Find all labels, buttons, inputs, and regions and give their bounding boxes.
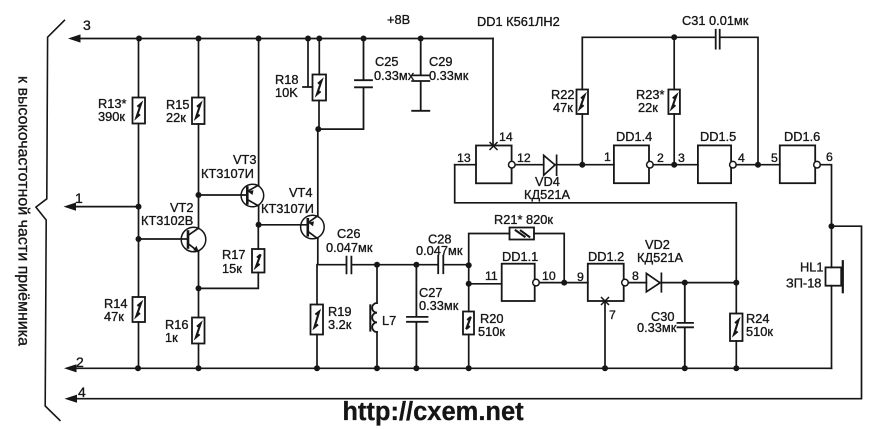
svg-text:0.33мк: 0.33мк [637,320,677,335]
inductor L7 [370,265,377,369]
svg-text:9: 9 [577,270,584,284]
wire: line 3 top rail (+8V) [79,38,493,40]
junction: L7 top node [374,262,380,268]
junction: VT2 emitter / R16 / R17 node [196,285,202,291]
arrow: line 2 [64,364,77,372]
svg-text:3: 3 [678,151,685,165]
svg-text:ЗП-18: ЗП-18 [786,276,821,291]
resistor R18 [313,39,327,130]
svg-text:12: 12 [517,151,531,165]
svg-text:47к: 47к [553,100,573,115]
arrow: line 3 [68,34,81,42]
wire: C26 node to DD1.1 input chain [353,264,469,266]
inverter DD1.5 [698,145,736,183]
wire: DD1.2 pin 7 to ground [604,301,606,368]
junction: C31 bottom node [755,162,761,168]
svg-text:0.33мх: 0.33мх [374,68,415,83]
svg-text:11: 11 [485,269,498,283]
svg-text:С31 0.01мк: С31 0.01мк [682,13,749,28]
junction: C30 top node [682,280,688,286]
inverter DD1.1 [469,264,540,301]
wire: DD1.5 pin 4 to DD1.6 pin 5 [736,164,780,166]
junction: R23 top node [671,34,677,40]
svg-text:0.047мк: 0.047мк [416,243,463,258]
wire: R15/VT2 collector branch [198,39,200,369]
svg-text:L7: L7 [382,313,396,328]
svg-text:DD1.1: DD1.1 [502,249,538,264]
pin 7 mark (x) [602,298,609,305]
svg-text:14: 14 [499,130,513,144]
resistor R22 [577,37,589,164]
capacitor C28 [438,256,443,274]
wire: left column R13/R14 branch [138,39,140,369]
junction: R22 bottom node [579,162,585,168]
svg-text:DD1.2: DD1.2 [588,249,624,264]
wire: VT3 emitter to rail [258,39,260,186]
svg-text:5: 5 [771,151,778,165]
svg-text:VT4: VT4 [289,185,312,200]
capacitor C27 [407,265,428,369]
junction: R16 bottom on ground [196,365,202,371]
wire: line 4 [76,226,862,399]
capacitor C25 [318,39,372,130]
wire: oscillator top line R22/R23/C31 [582,37,758,164]
svg-text:КД521А: КД521А [524,187,570,202]
diode VD4 [544,155,557,175]
svg-text:8: 8 [632,269,639,283]
svg-text:С29: С29 [429,54,452,69]
svg-text:DD1.6: DD1.6 [784,129,820,144]
wire: VT4 base [259,224,308,226]
svg-text:6: 6 [826,150,833,164]
wire: VT4 emitter up to R18/C25 node [317,129,319,216]
junction: VT3 collector / R17 / VT4 base node [256,222,262,228]
svg-text:КТ3107И: КТ3107И [201,166,254,181]
capacitor C31 [716,30,720,49]
transistor VT4 [301,215,325,239]
junction: C25 top on rail [361,36,367,42]
inverter DD1.6 [780,145,821,183]
arrow: line 4 [65,395,78,403]
svg-text:DD1 К561ЛН2: DD1 К561ЛН2 [477,14,560,29]
wire: feedback pin13 to VD2 output node [455,165,737,283]
svg-text:КТ3107И: КТ3107И [261,201,314,216]
svg-text:10: 10 [542,269,556,283]
capacitor C30 [678,283,694,369]
resistor R16 [192,318,205,344]
junction: VT2 base tap [136,236,142,242]
wire: DD1.6 pin 6 to HL1 top [820,165,831,268]
brace: RF-section connector bracket [36,20,65,420]
svg-text:VT3: VT3 [233,152,256,167]
junction: VT3 base node [196,192,202,198]
svg-text:КД521А: КД521А [637,250,683,265]
junction: R15 top on rail [196,36,202,42]
svg-text:47к: 47к [104,309,124,324]
resistor R19 [311,265,324,369]
junction: R18 top on rail [316,36,322,42]
svg-text:510к: 510к [746,324,773,339]
junction: L7 bottom on ground [374,365,380,371]
svg-text:DD1.5: DD1.5 [700,129,736,144]
wire: VD4 cathode to DD1.4 pin 1 [557,164,614,166]
junction: C27 top node [413,262,419,268]
resistor R13 [133,98,146,124]
inverter DD1.2 [588,264,629,301]
resistor R17 [199,225,265,289]
wire: rail stub near R18 label [303,39,313,88]
wire: VT3 collector to node [258,206,260,225]
svg-text:10K: 10K [275,85,298,100]
wire: DD1.4 pin 2 to DD1.5 pin 3 [653,164,698,166]
wire: line 2 ground rail [75,367,832,369]
svg-text:15к: 15к [222,261,242,276]
inverter DD1.4 [614,145,653,183]
wire: DD1.3 output pin 12 to VD4 [516,164,544,166]
resistor R23 [668,37,680,164]
svg-text:2: 2 [76,354,84,370]
svg-text:к высокочастотной части приёмн: к высокочастотной части приёмника [15,76,32,346]
svg-text:390к: 390к [98,109,125,124]
svg-text:2: 2 [657,151,664,165]
junction: R19 bottom on ground [314,365,320,371]
svg-text:22к: 22к [638,100,658,115]
junction: R14 bottom on ground [135,365,141,371]
wire: DD1.1 pin 10 to DD1.2 pin 9 [539,282,588,284]
junction: R21 right / pin10 node [561,280,567,286]
svg-text:7: 7 [609,308,616,322]
wire: VT4 collector down to C26 node [318,239,345,265]
junction: R24 top / feedback node [733,280,739,286]
capacitor C26 [347,257,352,274]
svg-text:4: 4 [78,384,86,400]
junction: C30 bottom on ground [682,365,688,371]
junction: R23 bottom node [671,162,677,168]
junction: pin 7 on ground [602,365,608,371]
svg-text:510к: 510к [478,324,505,339]
svg-text:С25: С25 [375,54,398,69]
wire: node D vertical [468,265,470,284]
junction: C27 bottom on ground [413,365,419,371]
wire: DD1.3 pin 13 input [455,164,476,166]
junction: R13 top on rail [136,36,142,42]
transistor VT2 [139,227,206,252]
resistor R24 [730,283,743,369]
svg-text:R21* 820к: R21* 820к [494,212,553,227]
svg-text:http://cxem.net: http://cxem.net [342,398,524,426]
diode VD2 [646,273,661,291]
svg-text:HL1: HL1 [800,260,823,275]
svg-text:С26: С26 [337,226,360,241]
svg-text:1: 1 [75,190,83,206]
svg-text:0.33мк: 0.33мк [419,298,459,313]
resistor R15 [192,98,205,125]
wire: DD1.2 pin 8 to VD2 [628,282,646,284]
resistor R14 [133,297,146,322]
junction: R18 / C25 / VT4 emitter node [315,126,321,132]
junction: C29 top on rail [418,36,424,42]
pin 14 mark (x) [490,143,497,150]
svg-text:3.2к: 3.2к [328,317,352,332]
svg-text:0.047мк: 0.047мк [326,240,373,255]
junction: C28 / R21 node [466,262,472,268]
junction: stub on rail [305,36,311,42]
junction: HL1 top / line 4 node [829,223,835,229]
resistor R21 feedback [469,228,565,283]
capacitor C29 [412,39,429,111]
svg-text:22к: 22к [166,110,186,125]
arrow: line 1 [64,203,77,211]
svg-text:DD1.4: DD1.4 [616,129,652,144]
inverter DD1.3 [476,146,515,184]
junction: DD1.1 input / R20 node [466,281,472,287]
svg-text:0.33мк: 0.33мк [429,68,469,83]
junction: line 1 tap [136,204,142,210]
svg-text:4: 4 [738,151,745,165]
junction: R20 bottom on ground [466,365,472,371]
junction: R24 bottom on ground [733,365,739,371]
svg-text:1: 1 [604,150,611,164]
buzzer HL1 [826,261,843,368]
resistor R20 [463,284,474,369]
svg-text:R17: R17 [222,247,245,262]
transistor VT3 [199,184,264,207]
wire: VD2 cathode to R24/feedback node [661,282,736,284]
svg-text:3: 3 [83,17,91,33]
svg-text:КТ3102В: КТ3102В [141,213,193,228]
svg-text:1к: 1к [165,330,178,345]
svg-text:+8В: +8В [387,12,410,27]
junction: VT3 emitter on rail [256,36,262,42]
wire: +8V drop to DD1.3 pin 14 [492,39,494,146]
wire: line 1 [75,206,139,208]
svg-text:13: 13 [457,151,471,165]
